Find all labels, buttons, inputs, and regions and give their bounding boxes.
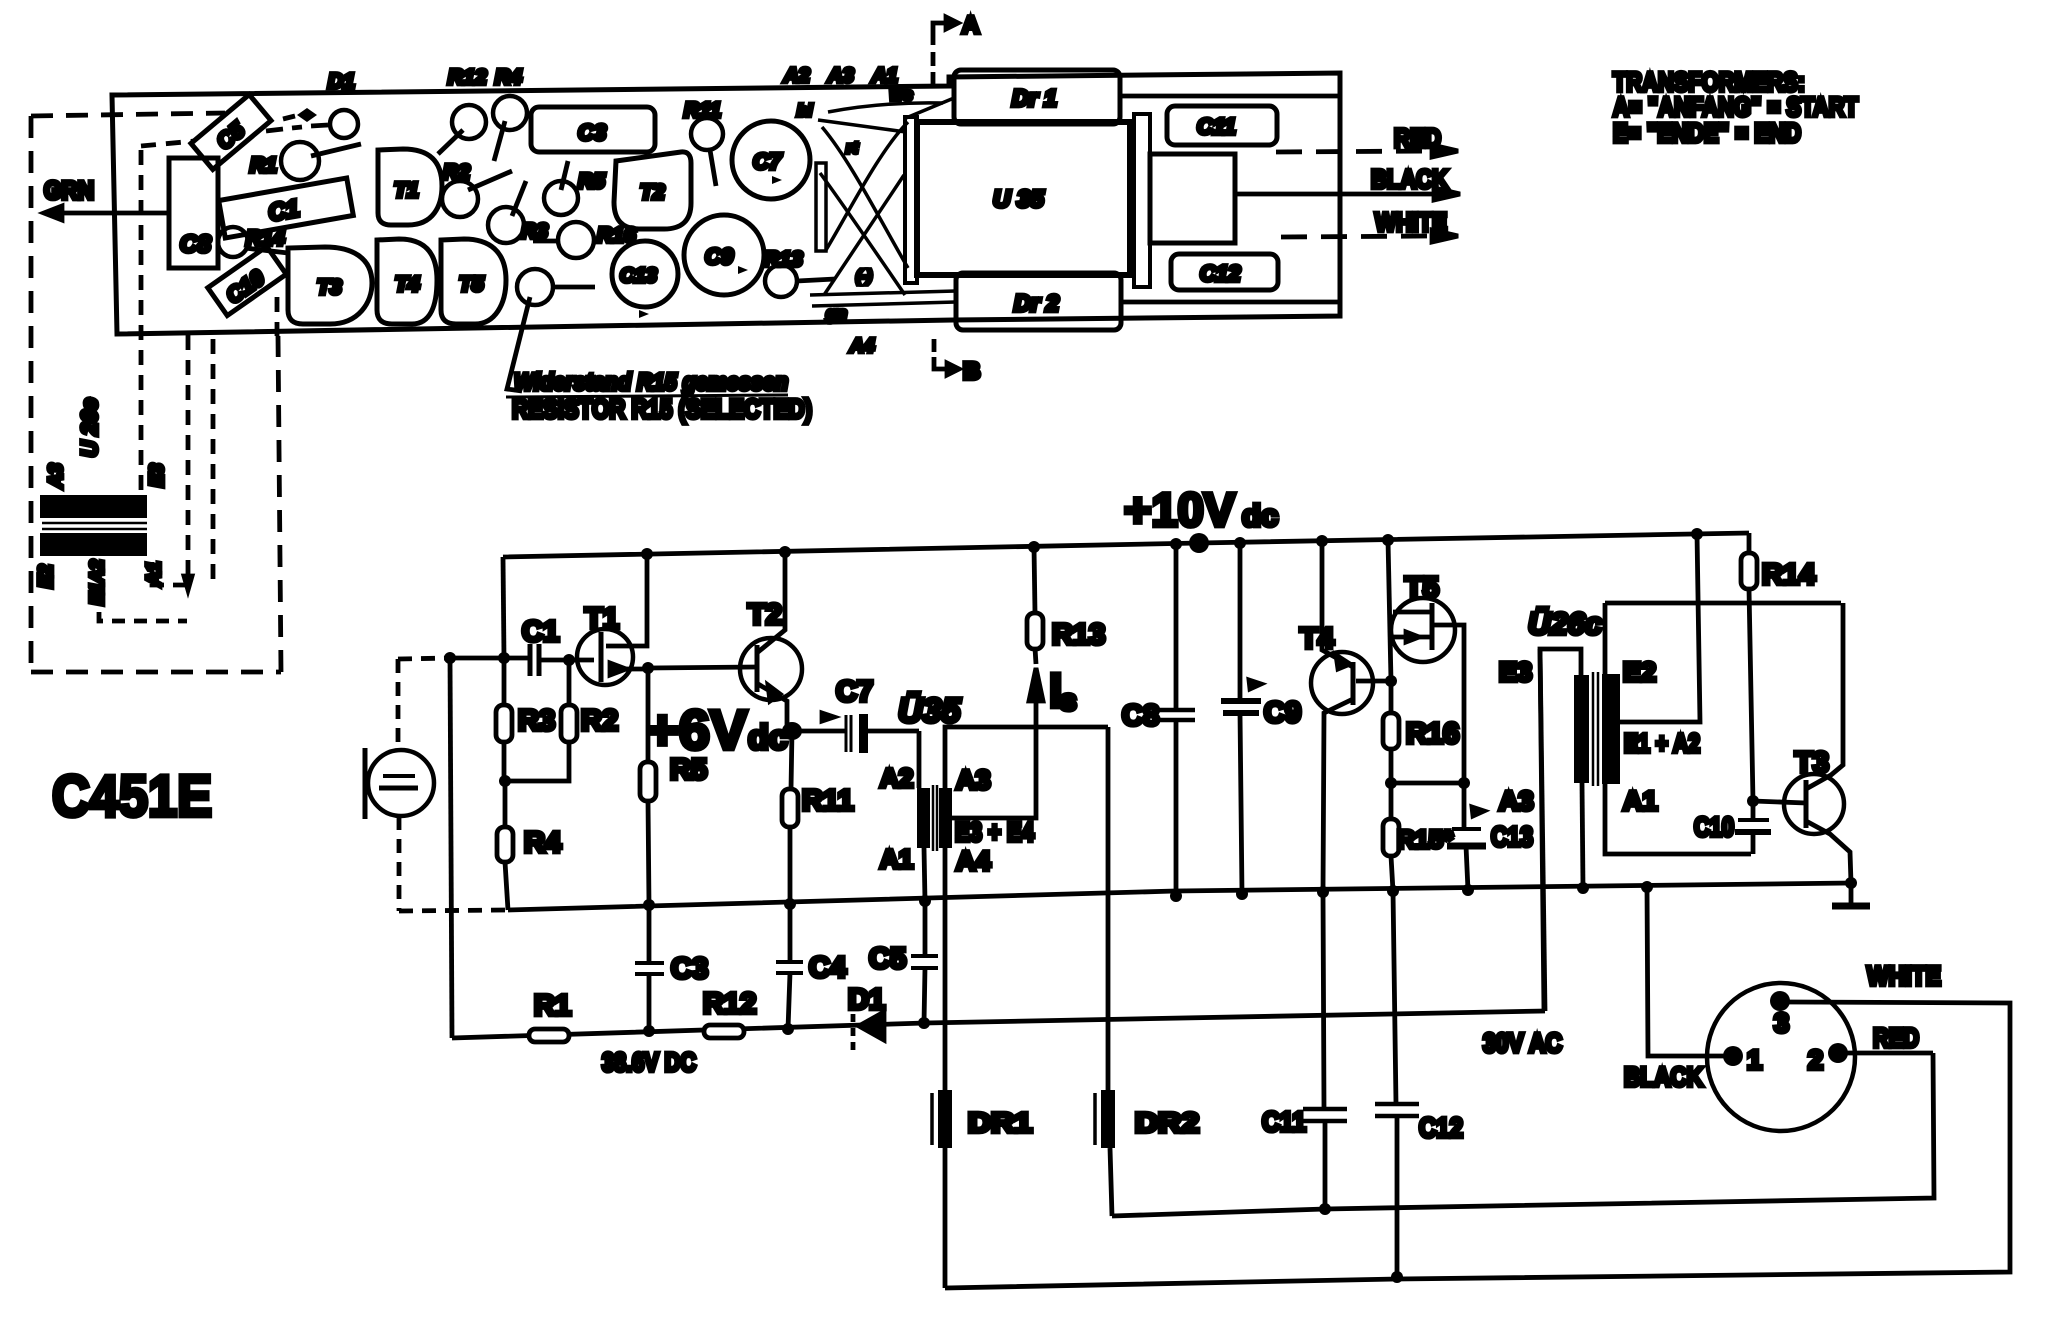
GRN wire arrow <box>58 211 168 216</box>
svg-text:T2: T2 <box>748 599 782 631</box>
node T1 gate <box>563 654 575 666</box>
U35 laminate bar right <box>1134 114 1150 287</box>
pad R16 <box>558 222 594 258</box>
resistor R12 <box>704 1025 744 1038</box>
svg-text:A4: A4 <box>849 336 875 357</box>
node C3 bottom <box>643 1025 655 1037</box>
svg-text:T4: T4 <box>395 273 420 296</box>
pad R14 <box>218 227 248 257</box>
node C13 rail <box>1462 884 1474 896</box>
svg-text:D1: D1 <box>328 70 355 93</box>
svg-text:R11: R11 <box>684 99 721 122</box>
svg-text:R1: R1 <box>250 154 277 177</box>
node C11 bottom <box>1319 1203 1331 1215</box>
wire 30VAC to E3 <box>1540 649 1545 1011</box>
pad R1 <box>281 142 319 180</box>
svg-text:R4: R4 <box>524 827 561 859</box>
wire pin1 to ground rail <box>1647 887 1726 1056</box>
svg-text:A1: A1 <box>871 65 898 87</box>
capacitor C11 (board) <box>1167 106 1277 145</box>
svg-text:C1: C1 <box>522 616 559 648</box>
dashed enclosure U26c <box>29 116 34 670</box>
node T3 base <box>1747 795 1759 807</box>
pad D1 <box>330 110 358 138</box>
svg-text:R1: R1 <box>534 990 571 1022</box>
node R16 bottom <box>1385 777 1397 789</box>
node C12 bottom <box>1391 1271 1403 1283</box>
svg-text:C13: C13 <box>620 265 657 287</box>
wire long line R1/D1 <box>452 1011 1545 1038</box>
capacitor C10 <box>1751 801 1756 854</box>
node C1/R3 <box>498 652 510 664</box>
resistor R3 <box>502 658 507 781</box>
svg-text:Dr 2: Dr 2 <box>1014 290 1059 316</box>
svg-text:T4: T4 <box>1300 623 1334 655</box>
svg-text:T3: T3 <box>317 276 342 299</box>
datum B arrow <box>934 339 959 375</box>
diode D1 mark <box>297 108 317 122</box>
pad R12 <box>452 105 486 139</box>
node T4 emitter rail <box>1317 886 1329 898</box>
wire output loop <box>1605 601 1841 606</box>
node C4 bottom <box>782 1023 794 1035</box>
pin 1 <box>1723 1046 1743 1066</box>
resistor R5 <box>648 669 649 905</box>
svg-text:+10V: +10V <box>1124 483 1236 536</box>
svg-text:R11: R11 <box>802 785 854 817</box>
wire capsule dashed <box>398 658 450 659</box>
wire Dr2 to board edge <box>1121 300 1340 305</box>
transistor T4 <box>1311 652 1373 714</box>
pad R15 selected <box>517 269 553 305</box>
capacitor C12 (board) <box>1171 254 1278 290</box>
wire left column top <box>503 557 504 658</box>
svg-text:ws: ws <box>890 85 913 104</box>
svg-text:C12: C12 <box>1200 261 1241 286</box>
wire lead (dashed) <box>211 339 216 585</box>
svg-text:E2: E2 <box>1623 657 1656 687</box>
svg-text:R16: R16 <box>1406 718 1459 750</box>
wire ground bottom rail <box>508 883 1851 910</box>
wire BLACK lead <box>1235 192 1434 197</box>
svg-text:C11: C11 <box>1262 1106 1306 1137</box>
resistor R1 <box>529 1029 569 1042</box>
dashed jog at A1 <box>152 562 186 585</box>
svg-text:U 26c: U 26c <box>77 398 102 457</box>
resistor R16 <box>1383 713 1399 749</box>
node +6Vdc <box>782 722 802 740</box>
diode D1 <box>851 1000 856 1052</box>
wire R16/T5 source <box>1391 781 1464 786</box>
svg-text:R2: R2 <box>581 705 618 737</box>
svg-text:rt: rt <box>846 140 858 157</box>
node T3 emitter <box>1845 877 1857 889</box>
pad R3 <box>488 207 524 243</box>
wire Dr1 to board edge <box>1120 94 1340 99</box>
capacitor C12 <box>1393 891 1397 1277</box>
svg-text:C4: C4 <box>809 952 846 984</box>
transformer U26c core <box>1593 672 1598 786</box>
choke Dr1 <box>954 70 1120 124</box>
svg-text:A1: A1 <box>880 844 913 874</box>
svg-text:DR2: DR2 <box>1135 1107 1199 1138</box>
node A1 rail <box>919 895 931 907</box>
svg-text:C451E: C451E <box>52 764 212 829</box>
svg-text:R2: R2 <box>443 161 470 184</box>
capacitor C4 <box>788 904 790 1029</box>
svg-text:C8: C8 <box>1122 700 1159 732</box>
capacitor C11 <box>1323 892 1325 1209</box>
svg-text:A3: A3 <box>956 765 991 795</box>
transformer U26c core <box>42 523 147 529</box>
capacitor C5 (board) <box>191 95 271 170</box>
ground <box>1849 883 1854 904</box>
resistor R4 <box>505 781 508 910</box>
svg-text:A4: A4 <box>956 846 991 876</box>
transistor T1 (board) <box>378 149 442 225</box>
node R13 rail <box>1028 541 1040 553</box>
capacitor C1 <box>528 644 533 676</box>
svg-text:E= "ENDE" = END: E= "ENDE" = END <box>1613 118 1801 148</box>
svg-text:C8: C8 <box>180 231 211 258</box>
capacitor C10 (board) <box>208 246 286 315</box>
svg-text:U 35: U 35 <box>993 186 1044 213</box>
choke DR1 <box>943 1090 948 1288</box>
transformer U35 secondary A3-A4 <box>939 788 952 848</box>
wire E3+E4 tap to R13 <box>951 700 1036 818</box>
svg-text:C5: C5 <box>869 943 906 975</box>
connector block rect <box>1150 154 1235 243</box>
svg-text:RESISTOR R15 (SELECTED): RESISTOR R15 (SELECTED) <box>512 394 812 424</box>
svg-text:BLACK: BLACK <box>1624 1062 1703 1092</box>
transistor T2 (board) <box>614 152 691 229</box>
svg-text:E2: E2 <box>36 564 57 588</box>
svg-text:B: B <box>963 358 980 385</box>
svg-text:E3: E3 <box>147 463 168 487</box>
pin 3 <box>1770 991 1790 1011</box>
transistor T5 (board) <box>441 239 506 324</box>
microphone capsule <box>368 750 434 816</box>
svg-text:s: s <box>1060 684 1077 717</box>
transformer U35 body <box>917 122 1130 275</box>
resistor R13 <box>1027 613 1043 649</box>
wire RED lead <box>1276 151 1432 152</box>
svg-text:Dr 1: Dr 1 <box>1012 85 1057 111</box>
wire +10V top rail <box>503 533 1749 557</box>
svg-text:R5: R5 <box>578 170 605 193</box>
node T1 source <box>642 662 654 674</box>
svg-text:C7: C7 <box>836 676 873 708</box>
transistor T4 (board) <box>377 239 437 324</box>
node E1+A2 rail <box>1691 528 1703 540</box>
resistor R11 <box>790 731 792 904</box>
node T5 rail <box>1382 534 1394 546</box>
capacitor C9 <box>1240 543 1242 894</box>
capacitor C9 (board) <box>684 215 764 295</box>
svg-text:GRN: GRN <box>44 177 94 205</box>
svg-text:C1: C1 <box>266 195 301 227</box>
svg-text:Ü35: Ü35 <box>898 692 961 730</box>
svg-text:R12: R12 <box>448 66 487 89</box>
svg-text:T2: T2 <box>640 181 665 204</box>
node R11 rail <box>784 898 796 910</box>
pad R11 <box>691 118 723 150</box>
capacitor C8 (board) <box>169 158 218 268</box>
resistor R14 <box>1749 533 1753 801</box>
svg-text:T3: T3 <box>1795 747 1829 779</box>
pin 2 <box>1828 1043 1848 1063</box>
XLR connector <box>1707 983 1855 1131</box>
node T4 collector rail <box>1316 535 1328 547</box>
transformer flying leads area <box>810 98 956 306</box>
transformer U26c top bar <box>40 495 147 518</box>
dashed inner line <box>141 141 195 146</box>
svg-text:WHITE: WHITE <box>1375 207 1447 237</box>
svg-text:T1: T1 <box>585 603 619 635</box>
svg-text:T1: T1 <box>394 179 419 202</box>
svg-text:R12: R12 <box>703 988 756 1020</box>
svg-text:38.6V DC: 38.6V DC <box>602 1047 696 1077</box>
resistor R15* <box>1383 819 1399 856</box>
svg-text:C9: C9 <box>1264 697 1301 729</box>
pad R2 <box>442 181 478 217</box>
transformer U35 core <box>933 785 937 851</box>
U35 laminate bar left <box>905 117 917 283</box>
svg-text:DR1: DR1 <box>968 1107 1032 1138</box>
wire E1+A2 tap <box>1620 534 1700 722</box>
node T2 collector rail <box>779 546 791 558</box>
wire T1 to T2 <box>648 667 756 668</box>
capacitor C3 <box>647 905 652 1031</box>
R15 selected note leader <box>507 297 530 391</box>
svg-text:D1: D1 <box>848 984 885 1016</box>
wire lead (dashed) <box>275 297 280 336</box>
pad R5 <box>544 181 578 215</box>
wire input line <box>450 656 530 661</box>
capacitor C5 <box>924 901 925 1023</box>
svg-text:E1A2: E1A2 <box>87 560 107 605</box>
svg-text:C12: C12 <box>1419 1112 1463 1143</box>
resistor R2 <box>506 660 569 781</box>
svg-text:30V AC: 30V AC <box>1483 1028 1562 1058</box>
node T4 base <box>1385 675 1397 687</box>
svg-text:3: 3 <box>1774 1008 1789 1038</box>
capacitor C13 <box>1464 783 1468 890</box>
capacitor C1 (board) <box>219 178 354 238</box>
svg-text:Widerstand R15 gemessen: Widerstand R15 gemessen <box>514 369 788 396</box>
capacitor C8 <box>1174 544 1179 896</box>
svg-text:R13: R13 <box>764 248 803 271</box>
transistor T3 <box>1784 774 1844 834</box>
svg-text:R14: R14 <box>246 227 285 250</box>
svg-text:E3 + E4: E3 + E4 <box>955 817 1034 847</box>
transformer U26c bottom bar <box>40 533 147 556</box>
svg-text:C13: C13 <box>1491 821 1533 852</box>
capacitor C3 (board) <box>531 107 655 152</box>
transformer U35 primary A2-A1 <box>917 731 922 788</box>
wire pin2 RED <box>1847 1051 1933 1056</box>
choke Dr2 <box>956 273 1121 330</box>
wire WHITE lead <box>1281 236 1432 237</box>
node R5 rail <box>643 899 655 911</box>
svg-text:A1: A1 <box>144 562 165 587</box>
PCB board outline <box>112 73 1340 334</box>
svg-text:A1: A1 <box>1623 786 1658 816</box>
transistor T5 <box>1391 598 1455 662</box>
pad R13 <box>765 265 797 297</box>
svg-text:A2: A2 <box>880 763 913 793</box>
svg-text:C3: C3 <box>671 953 708 985</box>
wire DR1/white bottom line <box>945 1002 2010 1288</box>
node C5 bottom <box>918 1017 930 1029</box>
svg-text:A2: A2 <box>783 65 810 87</box>
svg-text:C7: C7 <box>753 149 783 174</box>
svg-text:RED: RED <box>1394 123 1441 153</box>
transistor T2 <box>740 638 802 700</box>
node R15 rail <box>1387 885 1399 897</box>
svg-text:C11: C11 <box>1197 114 1236 139</box>
svg-text:T5: T5 <box>459 273 484 296</box>
wire lead A3 (dashed) <box>139 150 144 495</box>
node R3/R4 <box>499 775 511 787</box>
svg-text:BLACK: BLACK <box>1371 164 1448 194</box>
svg-text:E1 + A2: E1 + A2 <box>1624 728 1700 758</box>
svg-text:A3: A3 <box>1499 786 1534 816</box>
svg-text:C9: C9 <box>705 244 734 269</box>
svg-text:gn: gn <box>825 304 847 323</box>
dash-dot chain to D1 pad <box>266 125 328 131</box>
svg-text:E3: E3 <box>1499 657 1532 687</box>
wire lead E3/A1 (dashed) <box>186 335 191 574</box>
transistor T1 <box>577 629 633 685</box>
svg-text:R15*: R15* <box>1397 826 1453 854</box>
choke DR2 <box>1108 727 1112 1216</box>
svg-text:1: 1 <box>1747 1045 1762 1075</box>
svg-text:R4: R4 <box>495 66 522 89</box>
svg-text:A3: A3 <box>827 65 854 87</box>
pad R4 <box>493 96 527 130</box>
transformer U26c primary E3-A3 <box>1574 675 1589 783</box>
svg-text:R16: R16 <box>597 224 636 247</box>
svg-text:R13: R13 <box>1052 619 1105 651</box>
svg-text:R14: R14 <box>1762 559 1815 591</box>
capacitor C7 (board) <box>732 121 810 199</box>
svg-text:T5: T5 <box>1405 572 1439 604</box>
svg-text:A3: A3 <box>46 463 67 489</box>
node A3 rail <box>1577 882 1589 894</box>
svg-text:dc: dc <box>1242 498 1278 533</box>
svg-text:C3: C3 <box>578 120 606 145</box>
svg-text:2: 2 <box>1808 1045 1823 1075</box>
node capsule <box>444 652 456 664</box>
transistor T3 (board) <box>288 247 372 324</box>
svg-text:WHITE: WHITE <box>1867 961 1941 991</box>
wire DR2/C11/pin2 line <box>1112 1053 1934 1216</box>
svg-text:Ü26c: Ü26c <box>1528 606 1602 641</box>
svg-text:bl: bl <box>797 101 813 120</box>
capacitor C7 <box>792 729 845 734</box>
datum A arrow <box>933 17 958 84</box>
transformer U26c secondary E2-A1 <box>1602 674 1620 784</box>
svg-text:RED: RED <box>1873 1023 1919 1053</box>
wire capsule to R1 <box>450 658 452 1038</box>
node +10Vdc <box>1189 533 1209 553</box>
svg-text:+6V: +6V <box>646 698 747 761</box>
current arrow Is <box>1029 668 1043 701</box>
svg-text:R3: R3 <box>518 705 555 737</box>
capacitor C13 (board) <box>612 241 678 307</box>
svg-text:C10: C10 <box>1694 812 1734 842</box>
node T1 drain rail <box>641 548 653 560</box>
svg-text:(-): (-) <box>856 268 872 285</box>
svg-text:A: A <box>962 12 979 39</box>
svg-text:dc: dc <box>748 719 788 757</box>
